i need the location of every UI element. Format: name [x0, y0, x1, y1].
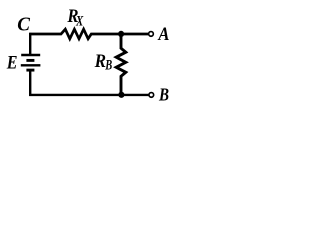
svg-text:X: X [75, 13, 83, 29]
svg-text:E: E [6, 52, 18, 72]
svg-text:B: B [158, 84, 169, 104]
svg-text:C: C [17, 14, 31, 36]
svg-text:B: B [104, 57, 112, 73]
svg-text:R: R [94, 50, 106, 71]
svg-text:A: A [157, 23, 169, 44]
